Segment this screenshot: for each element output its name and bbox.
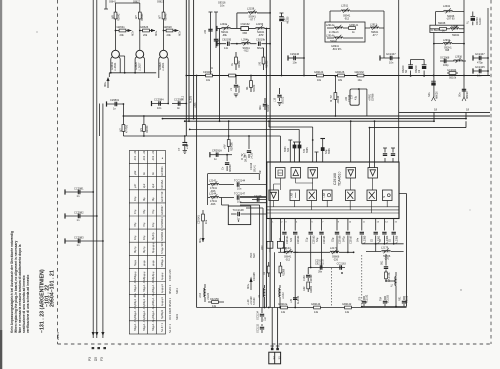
svg-text:47μ: 47μ	[355, 95, 358, 100]
emitter rail wire	[109, 73, 156, 77]
svg-text:C+: C+	[222, 166, 225, 170]
svg-text:GC2134: GC2134	[257, 310, 260, 320]
svg-text:L2153: L2153	[256, 22, 264, 26]
resistor GR641 20k	[115, 25, 135, 37]
connector box 32/32	[269, 352, 282, 364]
svg-text:GC9991: GC9991	[160, 166, 164, 176]
wire stub short	[99, 104, 101, 137]
resistor R2948b vertical	[277, 241, 287, 252]
capacitor GC2447 470p right	[473, 52, 489, 65]
connector wires down	[272, 308, 277, 350]
svg-text:C29161: C29161	[286, 235, 289, 244]
capacitor M6330 vertical	[222, 154, 232, 172]
svg-text:AL2132: AL2132	[297, 295, 300, 304]
svg-text:L90: L90	[259, 61, 262, 66]
coil FL2144	[278, 247, 298, 261]
svg-text:L2158: L2158	[247, 7, 255, 11]
resistor R2621	[159, 12, 168, 21]
page left edge	[0, 0, 2, 369]
long rail 2	[163, 118, 467, 120]
wire feed y129.4 to IC pin	[190, 129, 300, 162]
resistor R9398 in box2	[430, 22, 447, 33]
right border wire	[487, 8, 489, 76]
input terminal row3	[216, 41, 218, 46]
cap p10	[388, 232, 398, 244]
svg-text:S9μμ1 -9μμ: S9μμ1 -9μμ	[151, 304, 155, 318]
filter block 2 box (im Blech)	[430, 25, 464, 32]
capacitor above IC pin c	[320, 139, 331, 155]
svg-text:G02: G02	[303, 286, 306, 291]
svg-text:Lμμμμ1: Lμμμμ1	[160, 284, 164, 293]
dashed cut border right	[490, 0, 492, 344]
svg-text:CC2982: CC2982	[74, 211, 84, 215]
svg-text:11μ: 11μ	[264, 317, 267, 321]
svg-text:C2168B: C2168B	[253, 272, 256, 281]
junction dots right rails	[433, 120, 435, 122]
svg-text:Lμμμμ: Lμμμμ	[160, 272, 164, 280]
+12V arrow down-left	[103, 77, 110, 88]
resistor C29141 vertical lower-left	[198, 210, 208, 243]
block1 labels below	[331, 45, 342, 51]
coil L2943	[446, 25, 464, 37]
filter block 1 box (im Blech)	[325, 22, 365, 42]
IC cell: amp triangle	[291, 168, 301, 179]
frame wire B arrowhead	[95, 332, 98, 336]
svg-text:C2168: C2168	[254, 195, 262, 198]
svg-text:39n: 39n	[318, 271, 323, 274]
cap p8	[370, 232, 380, 244]
svg-text:10n: 10n	[220, 4, 225, 8]
capacitor on x210	[204, 29, 213, 34]
svg-text:-912: -912	[344, 17, 350, 20]
capacitor GC2134 below-left	[257, 308, 267, 323]
resistor C92162 63R	[241, 22, 251, 35]
svg-text:M: M	[383, 196, 386, 198]
svg-text:MD+: MD+	[132, 30, 135, 36]
resistor R2082 vertical	[231, 52, 241, 70]
svg-text:AL2080: AL2080	[363, 235, 366, 244]
table side notes	[168, 269, 179, 333]
svg-text:R91: R91	[399, 296, 402, 301]
coil L2911	[330, 4, 384, 23]
svg-text:MD+: MD+	[155, 30, 158, 36]
svg-text:+4μ7: +4μ7	[186, 143, 189, 149]
svg-text:CR291A: CR291A	[212, 149, 222, 153]
svg-text:D5: D5	[94, 357, 98, 361]
svg-text:S5020: S5020	[238, 85, 241, 93]
svg-text:M6020: M6020	[436, 91, 439, 99]
resistor C29217 10k	[203, 71, 212, 82]
IC U1 TDA4510 body	[267, 162, 399, 219]
wires into IC deflection box	[370, 121, 375, 168]
vertical coil L2142a	[258, 285, 265, 308]
bus top junction dots	[266, 28, 268, 30]
capacitor CR29A stub	[210, 149, 224, 162]
resistor R29530	[140, 125, 149, 133]
svg-text:-97 7: -97 7	[372, 34, 378, 37]
svg-text:S9μ1 -91μ: S9μ1 -91μ	[133, 292, 137, 305]
svg-text:L2144: L2144	[209, 191, 217, 195]
vertical chain under L2179: capacitor	[381, 254, 389, 268]
svg-text:S610k: S610k	[449, 76, 457, 79]
svg-text:S2n: S2n	[287, 147, 290, 152]
svg-text:78μ: 78μ	[142, 209, 146, 214]
svg-text:GR9141: GR9141	[349, 24, 359, 27]
svg-text:S9μμ1 -91μ: S9μμ1 -91μ	[133, 304, 137, 318]
svg-text:G2185: G2185	[406, 295, 409, 303]
svg-text:Lμμμμ1: Lμμμμ1	[160, 297, 164, 306]
pin end dot 3	[103, 347, 106, 349]
pin end dot 2	[97, 347, 100, 349]
svg-text:9μμμμμμ: 9μμμμμμ	[151, 242, 155, 253]
svg-text:MD+: MD+	[199, 237, 202, 243]
IC internal bus lines	[267, 207, 399, 213]
IC cell: triangle down left col	[269, 190, 279, 201]
svg-text:S4n: S4n	[356, 237, 359, 242]
svg-text:LTB: LTB	[359, 296, 362, 301]
svg-text:C92163: C92163	[315, 263, 324, 266]
svg-text:32: 32	[278, 356, 282, 360]
IC bottom pin wires	[272, 219, 394, 242]
resistor GC2944	[447, 69, 458, 80]
svg-text:Mμ: Mμ	[142, 197, 146, 201]
transistor column 2 wire	[139, 8, 141, 50]
frame wire A arrowhead	[92, 332, 95, 336]
svg-text:100p: 100p	[443, 64, 449, 67]
svg-text:20k: 20k	[120, 33, 125, 37]
svg-text:T84: T84	[380, 296, 383, 301]
svg-text:-L97 90: -L97 90	[446, 18, 455, 21]
svg-text:S4n: S4n	[428, 92, 431, 97]
svg-text:Mμ7μ: Mμ7μ	[142, 246, 146, 253]
capacitor under wire b	[380, 294, 390, 306]
coil L2141	[208, 178, 234, 193]
resistor GR2126 18k	[335, 71, 345, 82]
svg-text:37L2176: 37L2176	[388, 272, 391, 282]
wire y154.7	[224, 154, 232, 156]
table col header texts	[133, 150, 164, 332]
dashed cut border left	[57, 0, 59, 344]
svg-text:9μμμμ: 9μμμμ	[142, 271, 146, 279]
junction dots wire y136	[143, 135, 145, 137]
svg-text:S231: S231	[175, 313, 179, 320]
svg-text:S9μμ1 -91μ: S9μμ1 -91μ	[133, 317, 137, 331]
svg-text:70μ: 70μ	[142, 222, 146, 227]
junction x304 on y76	[303, 75, 305, 77]
pin continuation dots	[284, 251, 286, 253]
coil L2144	[208, 191, 234, 206]
capacitor TCC2148	[228, 206, 266, 225]
svg-text:SR9μμ 1: SR9μμ 1	[160, 256, 164, 267]
svg-text:S9μμ1 -912: S9μμ1 -912	[133, 278, 137, 292]
svg-text:CC2163: CC2163	[337, 263, 347, 266]
svg-text:9L2183: 9L2183	[387, 294, 390, 303]
svg-text:C29167: C29167	[350, 235, 353, 244]
svg-text:GC2447: GC2447	[386, 52, 396, 56]
svg-text:CC2584: CC2584	[154, 97, 164, 101]
wire y271 with caps	[308, 267, 345, 269]
svg-text:10μ: 10μ	[133, 235, 137, 240]
wire L2171 row	[295, 251, 353, 253]
resistor R2947	[119, 124, 128, 133]
svg-text:78μ: 78μ	[133, 222, 137, 227]
svg-text:B296: B296	[328, 148, 331, 154]
wire feed y127 to IC pin	[269, 121, 313, 162]
svg-text:S9μμ1 -91μ: S9μμ1 -91μ	[142, 317, 146, 331]
frame wire A	[92, 0, 94, 338]
svg-text:-97 7: -97 7	[250, 18, 256, 21]
svg-text:R29080: R29080	[231, 142, 234, 151]
capacitor GC2445 10n right	[473, 65, 489, 78]
bottom wire right segment	[362, 306, 407, 308]
svg-text:C02156: C02156	[210, 298, 219, 301]
wire y244 right	[362, 243, 404, 245]
svg-text:μμμμ: μμμμ	[143, 260, 146, 266]
svg-text:-012: -012	[285, 258, 291, 261]
svg-text:OC1 R925: OC1 R925	[168, 307, 172, 320]
svg-text:S9941: S9941	[330, 40, 338, 43]
svg-text:R2642: R2642	[118, 13, 121, 21]
svg-text:verificazione di una scheda ad: verificazione di una scheda ad innesto	[26, 275, 30, 333]
svg-text:47μ: 47μ	[133, 209, 137, 214]
resistor GR620 20k	[163, 25, 182, 37]
svg-text:18n: 18n	[259, 169, 262, 174]
svg-text:C29176: C29176	[315, 260, 324, 263]
svg-text:L2934: L2934	[443, 39, 451, 42]
ticks at top of pair	[209, 11, 219, 13]
svg-text:10a: 10a	[358, 79, 363, 82]
svg-text:L2941: L2941	[443, 4, 451, 8]
svg-text:–131 . 23 (ARGENTINIEN): –131 . 23 (ARGENTINIEN)	[40, 269, 46, 333]
svg-text:18: 18	[434, 108, 438, 112]
svg-text:C29166: C29166	[339, 235, 342, 244]
svg-text:C29164: C29164	[323, 235, 326, 244]
left bus origin elbows	[240, 205, 263, 208]
svg-text:20k: 20k	[167, 33, 172, 37]
svg-text:S9μμ1 -912: S9μμ1 -912	[142, 278, 146, 292]
svg-text:C29217: C29217	[203, 71, 212, 74]
svg-text:GR2142: GR2142	[342, 303, 352, 306]
capacitor C2947	[303, 268, 313, 284]
svg-text:NL 47 1: NL 47 1	[168, 323, 172, 333]
svg-text:C29163: C29163	[312, 235, 315, 244]
svg-text:M6020: M6020	[466, 91, 469, 99]
vertical left bus wires below IC	[260, 205, 275, 308]
small box LM component	[345, 88, 375, 116]
IC cell: output box	[383, 190, 393, 201]
rail2 right elbow at 466	[465, 112, 467, 118]
svg-text:L2914b: L2914b	[326, 34, 335, 37]
svg-text:-99k: -99k	[222, 34, 228, 37]
svg-text:L2911: L2911	[341, 4, 349, 8]
vertical resistor pair lower-left a	[263, 262, 270, 277]
svg-text:GR2124: GR2124	[314, 71, 324, 74]
capacitor above IC pin b	[298, 145, 309, 153]
svg-text:M_TV: M_TV	[330, 95, 333, 102]
svg-text:LAB: LAB	[290, 193, 293, 198]
svg-text:AL293: AL293	[190, 95, 193, 103]
svg-text:C92162: C92162	[241, 22, 251, 26]
vertical resistor pair lower-left b	[279, 262, 285, 277]
resistor R2948a vertical	[261, 241, 273, 252]
electrolytic capacitor H6330	[279, 13, 289, 76]
vertical wire x304	[303, 0, 305, 76]
resistor R2641	[112, 12, 121, 21]
svg-text:18: 18	[466, 108, 470, 112]
junction dots on y76	[196, 75, 198, 77]
input terminal row2	[216, 26, 218, 31]
svg-text:L2179: L2179	[381, 245, 389, 249]
svg-text:47-R50: 47-R50	[125, 124, 128, 133]
svg-text:S 9μμ 919: S 9μμ 919	[160, 242, 164, 254]
vertical coil left small	[199, 284, 210, 302]
wire y136 mid extension	[186, 136, 280, 162]
vertical pin wire x312	[312, 139, 314, 141]
capacitor under wire a	[359, 294, 369, 306]
svg-text:C29146: C29146	[290, 52, 300, 56]
svg-text:SE9: SE9	[253, 253, 256, 258]
svg-text:SC99913: SC99913	[160, 217, 164, 228]
capacitor CC2983 stub	[65, 236, 104, 247]
cap p7	[356, 232, 366, 244]
svg-text:L2943: L2943	[451, 25, 459, 28]
transistor T2	[135, 50, 144, 73]
electrolytic capacitor M97Z0	[466, 12, 482, 26]
svg-text:S0n: S0n	[459, 92, 462, 97]
svg-text:GR2126: GR2126	[335, 71, 345, 74]
svg-text:AL2085: AL2085	[395, 235, 398, 244]
coil L2914b in box	[326, 34, 363, 42]
svg-text:398: 398	[445, 49, 450, 52]
svg-text:FL2144: FL2144	[282, 247, 291, 250]
resistor GR626 20k	[139, 25, 158, 37]
svg-text:10n: 10n	[293, 60, 298, 64]
junction dots on y307.5	[264, 307, 266, 309]
svg-text:S9μ1 -91μ: S9μ1 -91μ	[142, 292, 146, 305]
big enclosure left edge	[196, 76, 198, 308]
svg-text:LL2627: LL2627	[139, 62, 142, 71]
label cluster left of IC	[241, 153, 262, 174]
IC cell: input box	[276, 168, 286, 179]
svg-text:C164: C164	[303, 275, 306, 281]
svg-text:L294b: L294b	[242, 37, 250, 41]
svg-text:CC2983: CC2983	[74, 236, 84, 240]
svg-text:9 KIN 215: 9 KIN 215	[168, 269, 172, 281]
rail right segment y112	[399, 111, 490, 113]
svg-text:63R: 63R	[243, 32, 248, 35]
electrolytic capacitor C2921 4u7	[178, 136, 189, 154]
coil L2914a in box	[326, 24, 343, 34]
wire x143.9 rail1 to mid	[143, 116, 145, 136]
svg-text:GR641: GR641	[117, 25, 126, 29]
svg-text:S9948: S9948	[438, 22, 446, 25]
svg-text:MN91 1: MN91 1	[168, 284, 172, 294]
IC pin numbers	[272, 222, 397, 224]
rail1 right elbow at 434	[433, 112, 435, 121]
IC cell: LAB box	[290, 190, 300, 201]
svg-text:W7: W7	[119, 128, 122, 132]
cap p6	[343, 232, 353, 244]
svg-text:MD+: MD+	[247, 283, 250, 289]
long bottom wire y307.5	[197, 307, 407, 309]
transistor column 1 wire	[115, 8, 117, 50]
svg-text:L2936: L2936	[455, 56, 463, 59]
svg-text:L294a: L294a	[220, 22, 228, 26]
svg-text:L15: L15	[274, 97, 277, 102]
top rail wire	[116, 3, 140, 8]
resistor GR210a 14k	[278, 303, 288, 314]
svg-text:L2914a: L2914a	[326, 24, 335, 27]
svg-text:GR626: GR626	[140, 25, 149, 29]
svg-text:S5022: S5022	[282, 96, 285, 104]
resistor GR2124 10k	[314, 71, 324, 82]
svg-text:S1μ: S1μ	[305, 237, 308, 242]
svg-text:20k: 20k	[143, 33, 148, 37]
pin end dot 1	[92, 347, 95, 349]
component group right of transistors: wire pair	[211, 12, 217, 76]
svg-text:S5030: S5030	[253, 84, 256, 92]
svg-text:10μ: 10μ	[133, 196, 137, 201]
IC cell: demod triangle down	[308, 168, 318, 179]
capacitor C29176 39n	[315, 260, 324, 274]
L2141 block top wire	[208, 174, 260, 205]
capacitor C29146 10n	[288, 52, 305, 65]
long rail 1	[123, 115, 490, 117]
resistor R2990 vertical	[303, 282, 313, 293]
decoupling capacitor row below IC: cap p1	[279, 232, 289, 244]
svg-text:-101 . 21: -101 . 21	[151, 150, 155, 161]
wire L2179 row	[366, 251, 404, 253]
svg-text:L2141: L2141	[209, 178, 217, 182]
svg-text:2μ2: 2μ2	[151, 183, 155, 188]
svg-text:GC2944: GC2944	[447, 69, 457, 72]
svg-text:MD+: MD+	[179, 30, 182, 36]
cap p3	[305, 232, 315, 244]
capacitor GC2968 100p	[440, 57, 452, 67]
svg-text:M6220: M6220	[402, 65, 405, 73]
capacitor GC2132 below-left	[257, 323, 265, 333]
dashed internal wire	[332, 255, 362, 307]
svg-text:-101 . 22: -101 . 22	[142, 150, 146, 161]
bus label cluster C	[247, 296, 256, 305]
svg-text:-801 9%: -801 9%	[332, 48, 342, 51]
svg-text:10μ: 10μ	[142, 235, 146, 240]
svg-text:μ92: μ92	[133, 170, 137, 175]
svg-text:S91μ1 -9μμ: S91μ1 -9μμ	[151, 291, 155, 305]
capacitor TCC2144	[234, 178, 267, 190]
pin continuation wires	[284, 243, 393, 308]
junction on bus	[189, 129, 191, 131]
svg-text:C9219b: C9219b	[256, 37, 266, 41]
svg-text:-226: -226	[333, 258, 339, 261]
svg-text:C29141: C29141	[198, 215, 201, 224]
svg-text:10n: 10n	[477, 73, 482, 77]
svg-text:im Blech: im Blech	[431, 29, 441, 32]
svg-text:AL2182: AL2182	[366, 294, 369, 303]
capacitor above IC pin e	[391, 148, 395, 155]
bus side labels	[182, 95, 198, 108]
svg-text:C62195: C62195	[222, 37, 232, 41]
svg-text:TCC2148: TCC2148	[233, 208, 245, 212]
svg-text:W9: W9	[112, 15, 115, 19]
svg-text:L78: L78	[290, 298, 293, 303]
capacitor on x216	[214, 38, 221, 46]
svg-text:1μ: 1μ	[237, 217, 240, 221]
svg-text:R2990: R2990	[310, 285, 313, 293]
svg-text:C29162: C29162	[297, 235, 300, 244]
svg-text:R2930: R2930	[146, 125, 149, 133]
svg-text:B294: B294	[284, 146, 287, 152]
